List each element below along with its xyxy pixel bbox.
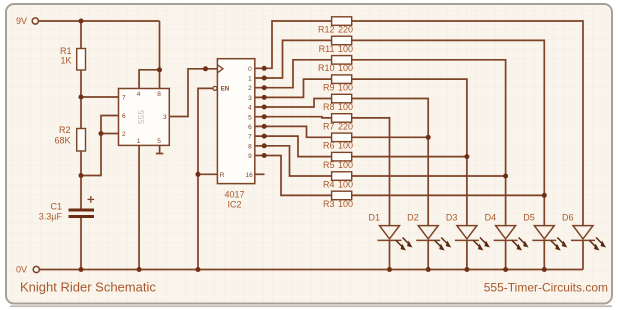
svg-text:IC2: IC2 <box>227 200 241 210</box>
resistor R12 <box>332 17 352 26</box>
node R5/D3 <box>464 154 469 159</box>
wire 0V rail <box>40 269 583 271</box>
wire 555 pin 1 to 0V <box>138 145 140 269</box>
svg-text:16: 16 <box>246 172 254 179</box>
svg-text:4: 4 <box>248 105 252 112</box>
resistor R9 <box>332 75 352 84</box>
node rail D3 <box>464 267 469 272</box>
wire Q5 to R7 to D1 <box>255 117 332 118</box>
svg-text:5: 5 <box>157 138 161 145</box>
svg-text:D4: D4 <box>485 213 497 223</box>
wire Q1 to R11 to D5 <box>255 40 332 78</box>
LED D3 <box>455 226 479 241</box>
EN bubble <box>213 86 217 90</box>
node Q5 <box>262 114 267 119</box>
wire D2 cathode to rail <box>427 240 429 269</box>
resistor R11 <box>332 36 352 45</box>
svg-text:6: 6 <box>248 124 252 131</box>
wire 4017 pin 16 stub <box>255 173 265 175</box>
resistor R8 <box>332 94 352 103</box>
node rail EN/R <box>196 267 201 272</box>
svg-text:R7: R7 <box>323 121 335 131</box>
node 9V/R1 <box>79 19 84 24</box>
node rail D2 <box>426 267 431 272</box>
node Q3 <box>262 95 267 100</box>
svg-text:100: 100 <box>338 44 353 54</box>
node EN/R <box>196 172 201 177</box>
svg-text:555: 555 <box>136 110 146 124</box>
svg-text:1: 1 <box>248 76 252 83</box>
resistor R6 <box>332 133 352 142</box>
wire 555 pin 2 <box>101 133 119 135</box>
resistor R7 <box>332 114 352 123</box>
wire D6 cathode to rail <box>582 240 584 269</box>
wire Q6 to R6 <box>255 126 332 137</box>
node R4/D4 <box>503 174 508 179</box>
svg-text:D3: D3 <box>446 213 458 223</box>
wire Q9 to R3 <box>255 156 332 196</box>
LED D1 arrows <box>396 238 413 251</box>
svg-text:3: 3 <box>163 114 167 121</box>
node R1/R2/pin7 <box>79 95 84 100</box>
svg-text:R2: R2 <box>59 125 71 135</box>
wire D3 cathode to rail <box>466 240 468 269</box>
svg-text:R3: R3 <box>323 199 335 209</box>
resistor R3 <box>332 191 352 200</box>
node Q4 <box>262 105 267 110</box>
svg-text:4: 4 <box>137 91 141 98</box>
LED D2 arrows <box>435 238 452 251</box>
wire 555 pin 5 stub <box>159 145 161 153</box>
wire R1 bottom to R2 top <box>80 70 82 129</box>
wire Q0 to R12 to D6 <box>255 21 332 68</box>
svg-text:R9: R9 <box>323 83 335 93</box>
9V terminal <box>32 18 38 24</box>
svg-text:8: 8 <box>248 143 252 150</box>
node rail D4 <box>503 267 508 272</box>
node clock <box>203 66 208 71</box>
svg-text:100: 100 <box>338 63 353 73</box>
wire D4 cathode to rail <box>505 240 507 269</box>
svg-text:EN: EN <box>221 87 229 93</box>
svg-text:3: 3 <box>248 95 252 102</box>
wire Q2 to R10 to D4 <box>255 60 332 88</box>
svg-text:220: 220 <box>338 121 353 131</box>
clock pin triangle <box>217 65 223 73</box>
wire Q3 to R9 to D3 <box>255 79 332 97</box>
node rail D1 <box>387 267 392 272</box>
wire 9V down to 555 pin 8 <box>159 21 161 89</box>
svg-text:1K: 1K <box>60 56 71 66</box>
node 9V branch pins 4/8 <box>157 67 162 72</box>
svg-text:555-Timer-Circuits.com: 555-Timer-Circuits.com <box>484 280 608 294</box>
node Q9 <box>262 153 267 158</box>
wire Q8 to R4 <box>255 146 332 176</box>
svg-text:D2: D2 <box>407 213 419 223</box>
svg-text:7: 7 <box>248 134 252 141</box>
node R3/D5 <box>542 193 547 198</box>
wire node to 555 pin 7 <box>81 96 119 98</box>
svg-text:100: 100 <box>338 141 353 151</box>
svg-text:Knight Rider Schematic: Knight Rider Schematic <box>20 280 156 295</box>
resistor R2 <box>77 129 86 152</box>
svg-text:R8: R8 <box>323 102 335 112</box>
svg-text:R6: R6 <box>323 141 335 151</box>
svg-text:6: 6 <box>122 113 126 120</box>
svg-text:8: 8 <box>157 91 161 98</box>
wire D1 cathode to rail <box>389 240 391 269</box>
LED D5 arrows <box>551 238 568 251</box>
wire 555 pin 3 to 4017 clock <box>169 69 217 117</box>
svg-text:9: 9 <box>248 153 252 160</box>
LED D4 arrows <box>512 238 529 251</box>
svg-text:D1: D1 <box>368 213 380 223</box>
resistor R1 <box>77 49 86 71</box>
wire 9V to R1 top <box>80 21 82 49</box>
svg-text:5: 5 <box>248 114 252 121</box>
node R6/D2 <box>426 135 431 140</box>
node rail C1 <box>79 267 84 272</box>
node Q2 <box>262 85 267 90</box>
LED D1 <box>378 226 402 241</box>
svg-text:100: 100 <box>338 179 353 189</box>
svg-text:R10: R10 <box>318 63 335 73</box>
svg-text:R12: R12 <box>318 24 335 34</box>
wire branch to 555 pin 4 <box>139 70 159 89</box>
node rail pin1 <box>137 267 142 272</box>
svg-text:1: 1 <box>137 138 141 145</box>
node rail D5 <box>542 267 547 272</box>
IC 555 IC1 <box>119 89 170 146</box>
resistor R4 <box>332 172 352 181</box>
wire Q7 to R5 <box>255 136 332 157</box>
node Q1 <box>262 76 267 81</box>
svg-text:2: 2 <box>248 85 252 92</box>
svg-text:9V: 9V <box>16 16 27 26</box>
svg-text:R1: R1 <box>60 46 72 56</box>
svg-text:220: 220 <box>338 24 353 34</box>
IC 4017 IC2 <box>217 59 254 184</box>
resistor R10 <box>332 56 352 65</box>
LED D4 <box>494 226 518 241</box>
svg-text:100: 100 <box>338 83 353 93</box>
wire Q4 to R8 to D2 <box>255 99 332 108</box>
svg-text:D5: D5 <box>523 213 535 223</box>
svg-text:0: 0 <box>248 66 252 73</box>
wire 555 pin 6 branch <box>101 116 119 134</box>
svg-text:100: 100 <box>338 102 353 112</box>
capacitor C1 <box>69 210 95 217</box>
svg-text:C1: C1 <box>50 202 62 212</box>
svg-text:100: 100 <box>338 199 353 209</box>
op-amp U1 plus sign for C1 polarity <box>88 196 95 203</box>
svg-text:3.3µF: 3.3µF <box>39 212 63 222</box>
wire 9V rail <box>39 20 160 22</box>
node Q6 <box>262 124 267 129</box>
node Q8 <box>262 143 267 148</box>
svg-text:100: 100 <box>338 160 353 170</box>
LED D6 <box>571 226 595 241</box>
svg-text:R: R <box>220 172 225 179</box>
LED D6 arrows <box>590 238 607 251</box>
node R2/C1 branch <box>79 173 84 178</box>
node Q0 <box>262 66 267 71</box>
wire 4017 R pin to node <box>198 173 217 175</box>
LED D5 <box>532 226 556 241</box>
resistor R5 <box>332 152 352 161</box>
svg-text:2: 2 <box>122 131 126 138</box>
wire D5 cathode to rail <box>543 240 545 269</box>
svg-text:7: 7 <box>122 95 126 102</box>
node Q7 <box>262 134 267 139</box>
0V terminal <box>33 266 39 272</box>
svg-text:R11: R11 <box>319 44 335 54</box>
svg-text:D6: D6 <box>562 213 574 223</box>
LED D3 arrows <box>473 238 490 251</box>
svg-text:4017: 4017 <box>224 190 244 200</box>
wire C1 to 0V rail <box>80 218 82 270</box>
svg-text:0V: 0V <box>16 265 27 275</box>
LED D2 <box>416 226 440 241</box>
wire pins 2/6 down to R2-C1 node <box>81 134 101 176</box>
svg-text:R5: R5 <box>323 160 335 170</box>
svg-text:68K: 68K <box>54 136 70 146</box>
wire R2 bottom to C1 <box>80 151 82 209</box>
svg-text:R4: R4 <box>323 179 335 189</box>
wire 4017 EN to 0V <box>198 88 213 269</box>
node pin2/pin6 <box>99 131 104 136</box>
